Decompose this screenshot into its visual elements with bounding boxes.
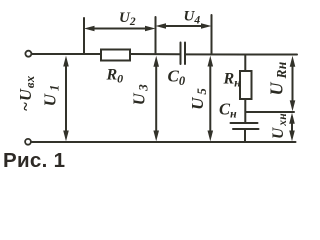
wire: top rail, load branch to right end <box>245 54 297 56</box>
node A: Rн-Cн junction reference line <box>246 111 294 113</box>
svg-text:~Uвх: ~Uвх <box>16 76 37 112</box>
wire: load branch upper stub <box>244 55 246 72</box>
svg-text:R0: R0 <box>106 67 124 86</box>
wire: bottom rail <box>31 141 296 143</box>
dimension arrow U5 <box>208 56 214 142</box>
wire: top rail, terminal to R0 <box>32 53 101 55</box>
extension tick at node above R0 input <box>83 18 85 54</box>
svg-text:U2: U2 <box>119 10 136 28</box>
svg-text:Uхн: Uхн <box>270 113 289 139</box>
dimension U2 <box>84 26 156 31</box>
svg-text:U3: U3 <box>130 82 151 105</box>
wire: top rail, C0 to load branch <box>186 53 245 55</box>
capacitor C0 <box>181 43 186 65</box>
svg-text:Rн: Rн <box>223 71 242 90</box>
svg-text:U5: U5 <box>188 85 209 110</box>
dimension U4 <box>156 23 212 28</box>
wire: load branch lower stub <box>244 129 246 142</box>
dimension arrow URн <box>290 56 296 112</box>
resistor Rн <box>240 71 252 99</box>
svg-text:U1: U1 <box>41 82 62 107</box>
wire: load branch middle stub <box>244 99 246 123</box>
wire: top rail, R0 to C0 <box>130 53 180 55</box>
dimension arrow Uхн <box>289 113 295 142</box>
svg-text:U4: U4 <box>184 9 201 27</box>
resistor R0 <box>101 50 130 61</box>
extension tick at node after C0 <box>211 15 213 54</box>
capacitor Cн <box>231 123 259 129</box>
dimension arrow U1 <box>63 56 69 142</box>
terminal: input bottom <box>25 139 31 145</box>
svg-text:C0: C0 <box>168 67 186 88</box>
svg-text:Сн: Сн <box>219 100 237 121</box>
dimension arrow U3 <box>153 56 159 142</box>
extension tick at node between R0 and C0 <box>155 17 157 54</box>
svg-text:URн: URн <box>267 61 289 95</box>
terminal: input top <box>25 51 31 57</box>
svg-text:Рис. 1: Рис. 1 <box>3 149 65 172</box>
